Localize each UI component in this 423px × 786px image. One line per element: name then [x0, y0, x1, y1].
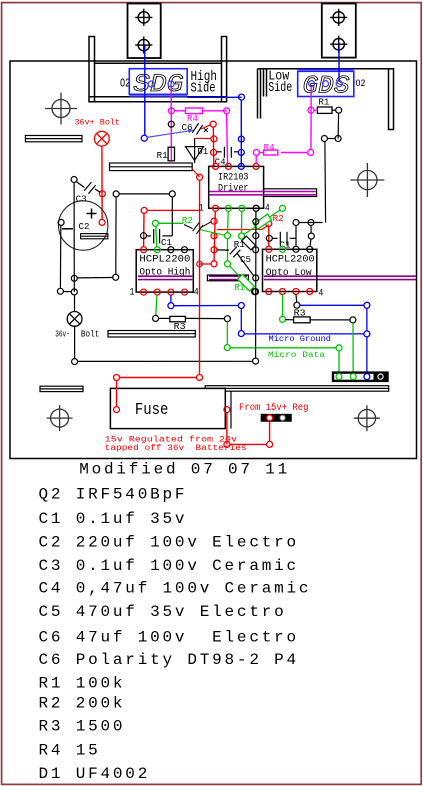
node magenta R4 left — [168, 108, 174, 114]
resistor R1 low — [317, 107, 332, 113]
wire: green opto high pin2 to R3 — [156, 295, 157, 315]
wire: magenta R4 horizontal — [174, 110, 185, 112]
wire: red from bar B to long rail — [192, 169, 199, 177]
Q2 high-side footprint SDG box — [129, 69, 187, 97]
svg-text:C6: C6 — [182, 123, 193, 133]
wire: black pads join — [327, 138, 335, 140]
wire: R3 low leads — [286, 319, 294, 321]
resistor R4 high — [186, 108, 203, 114]
wire: green to connector pin2 — [352, 323, 354, 373]
svg-text:D1 UF4002: D1 UF4002 — [39, 765, 151, 783]
svg-text:Q2 IRF540BpF: Q2 IRF540BpF — [39, 485, 188, 503]
svg-text:4: 4 — [194, 288, 199, 299]
resistor R1 high (vertical) — [168, 147, 174, 161]
svg-text:R1 100k: R1 100k — [39, 675, 126, 693]
capacitor C1 high pad — [141, 233, 147, 239]
board outline — [10, 61, 417, 459]
svg-text:HCPL2200: HCPL2200 — [266, 254, 315, 265]
trace bar C — [108, 331, 195, 338]
svg-text:1: 1 — [199, 204, 204, 215]
wire: black x311 down — [310, 226, 312, 234]
wire: black down x324 — [324, 142, 327, 223]
node — [71, 289, 77, 295]
wire: join minus wires — [63, 291, 71, 293]
node — [253, 358, 259, 364]
resistor R2 green diagonal — [244, 210, 280, 234]
wire: blue from right tab hole to GDS — [338, 44, 340, 81]
node blue — [239, 94, 245, 100]
capacitor C1 high — [147, 229, 173, 244]
node magenta — [253, 150, 259, 156]
node magenta R4 low node — [308, 150, 314, 156]
capacitor C2 body — [58, 201, 107, 250]
svg-text:C5 470uf 35v Electro: C5 470uf 35v Electro — [39, 603, 287, 621]
wire: red 36v+ down to C2 — [101, 146, 103, 219]
svg-text:R2 200k: R2 200k — [39, 694, 126, 712]
svg-text:R3: R3 — [294, 309, 306, 319]
resistor R3 low — [294, 317, 311, 323]
wire: red horizontal to opto high — [141, 207, 147, 213]
low-side heatsink outline — [258, 69, 394, 130]
svg-text:From 15v+ Reg: From 15v+ Reg — [239, 403, 309, 414]
wire: red C6 to pad — [201, 125, 210, 129]
parts list — [39, 461, 312, 783]
pad red C6 — [210, 121, 216, 127]
fuse F1 box — [110, 388, 225, 428]
node black R1g end — [252, 289, 258, 295]
trace bar A — [25, 136, 82, 142]
pad red fuse left — [114, 407, 120, 413]
wire: green to connector — [338, 351, 340, 373]
svg-text:HCPL2200: HCPL2200 — [139, 253, 190, 264]
svg-text:Micro Data: Micro Data — [268, 350, 325, 360]
svg-text:C2: C2 — [79, 222, 90, 232]
node — [72, 359, 78, 365]
wire: blue micro ground horizontal — [244, 333, 364, 335]
resistor R1 black diagonal — [244, 238, 254, 248]
wire: red long rail x199 — [199, 180, 201, 374]
capacitor C6 second — [184, 222, 211, 234]
wire: black x116 vertical — [115, 197, 117, 274]
wire: magenta lead — [259, 152, 263, 154]
node green pin4 right — [280, 205, 286, 211]
C6 polarity x mark — [204, 128, 208, 132]
svg-text:Side: Side — [268, 80, 292, 96]
tab hole H1 — [135, 9, 152, 26]
tab hole H4 — [330, 36, 347, 53]
svg-text:C4 0,47uf 100v Ceramic: C4 0,47uf 100v Ceramic — [39, 580, 312, 598]
mounting target right — [350, 163, 384, 197]
pad black — [321, 136, 327, 142]
svg-text:Side: Side — [191, 80, 216, 96]
pad red fuse right — [224, 407, 230, 413]
IR2103 pin pads top — [213, 163, 219, 169]
node black R1 low right — [336, 107, 342, 113]
svg-text:C1 0.1uf 35v: C1 0.1uf 35v — [39, 510, 188, 528]
svg-text:R1: R1 — [234, 283, 245, 293]
pad D — [323, 81, 329, 87]
svg-text:D1: D1 — [197, 147, 208, 157]
IR2103 pin pads bottom — [213, 205, 219, 211]
purple traces in IR2103 — [210, 192, 317, 195]
wire: blue opto high pin3 — [170, 295, 172, 303]
svg-text:R3: R3 — [174, 322, 186, 332]
trace bar F — [207, 275, 248, 281]
opto low pads bottom — [266, 289, 272, 295]
wire: black opto low pin3 down — [295, 295, 298, 303]
mounting tab left — [128, 4, 161, 59]
svg-text:R4 15: R4 15 — [39, 742, 101, 760]
svg-text:tapped off 36v Batteries: tapped off 36v Batteries — [105, 443, 247, 453]
pad red C3 right — [99, 191, 105, 197]
svg-text:C2 220uf 100v Electro: C2 220uf 100v Electro — [39, 534, 299, 552]
wire: magenta from SDG G pad down — [170, 87, 172, 147]
wire: black C1 top link — [171, 197, 173, 236]
wire: red rail x213 — [212, 127, 215, 166]
svg-text:Opto Low: Opto Low — [266, 267, 312, 278]
pad C2 minus — [58, 219, 64, 225]
mounting target bottom-left — [47, 405, 73, 431]
diode D1 — [186, 147, 204, 163]
svg-text:Modified 07 07 11: Modified 07 07 11 — [79, 461, 290, 479]
wire: black pads join — [299, 222, 323, 224]
opto high pads top — [141, 247, 147, 253]
C2 minus mark — [62, 228, 73, 230]
connector J1 micro — [333, 373, 388, 381]
pad blue C4 — [238, 149, 244, 155]
svg-text:SDG: SDG — [133, 70, 183, 99]
wire: red joins long rail — [200, 263, 212, 265]
pad red C4 left — [211, 149, 217, 155]
IC U1 IR2103 box — [209, 166, 264, 208]
wire: R3 leads — [159, 317, 170, 319]
trace bar G — [264, 189, 317, 197]
trace bar D — [205, 386, 389, 392]
pad D-G — [168, 81, 174, 87]
svg-text:O2: O2 — [356, 78, 366, 90]
svg-text:Micro Ground: Micro Ground — [269, 334, 332, 344]
opto high pads bottom — [141, 289, 147, 295]
bolt 36v+ symbol — [94, 131, 109, 146]
tab hole H3 — [330, 9, 347, 26]
wire: R1 low leads — [314, 109, 317, 111]
wire: black to C2/C3 rail — [77, 277, 113, 279]
wire: C2 minus down — [59, 225, 61, 288]
Q2 low-side footprint GDS box — [298, 69, 354, 96]
pad red C2 plus — [99, 219, 105, 225]
node — [71, 275, 77, 281]
wire: green opto low pin2 down — [282, 295, 284, 317]
wire: red rail IR2103 pin1 bottom — [214, 211, 215, 260]
IC U3 HCPL2200 opto low box — [263, 249, 317, 291]
svg-text:4: 4 — [265, 204, 270, 215]
pad S — [336, 81, 342, 87]
pad C3 left — [71, 177, 77, 183]
node blue C6 arrow start — [141, 135, 147, 141]
pad S-D — [148, 81, 154, 87]
capacitor C1 low — [266, 235, 272, 241]
wire: red rising link to opto low rail — [217, 225, 269, 230]
wire: green down to opto high pin2 — [156, 226, 157, 246]
svg-text:Fuse: Fuse — [135, 400, 169, 419]
svg-text:1: 1 — [130, 288, 135, 299]
wire: R1 to bar B — [170, 161, 172, 163]
svg-text:15v Regulated from 24v: 15v Regulated from 24v — [105, 435, 237, 445]
pad black — [335, 136, 341, 142]
svg-text:R2: R2 — [273, 214, 284, 224]
svg-text:36v+ Bolt: 36v+ Bolt — [75, 118, 121, 128]
trace bar E — [40, 386, 83, 391]
pad G — [309, 81, 315, 87]
svg-text:IR2103: IR2103 — [218, 171, 249, 182]
opto low pads top — [266, 246, 272, 252]
wire: down to 36v- bolt — [74, 295, 76, 312]
wire: red fuse to header — [226, 413, 228, 445]
svg-text:R3 1500: R3 1500 — [39, 718, 126, 736]
wire: black down from R1 low — [337, 113, 340, 138]
wire: C3 left vertical — [73, 183, 75, 292]
mounting tab right — [322, 4, 356, 58]
pad black on magenta rail — [168, 121, 174, 127]
svg-text:C3 0.1uf 100v Ceramic: C3 0.1uf 100v Ceramic — [39, 557, 299, 575]
wire: green diagonal to pad — [201, 230, 225, 235]
wire: red opto high pin1 — [143, 213, 145, 246]
wire: magenta down to IR2103 pin2 — [227, 114, 228, 167]
wire: green micro data drop — [226, 322, 228, 345]
svg-text:R1: R1 — [157, 151, 168, 161]
high-side heatsink outline — [89, 37, 227, 102]
wire: green R2 high — [152, 220, 158, 226]
wire: magenta R4 low horizontal — [281, 152, 308, 154]
resistor R3 high — [170, 316, 186, 321]
pad red — [211, 136, 217, 142]
wire: green micro data horizontal — [230, 347, 336, 349]
svg-text:R4: R4 — [264, 143, 275, 153]
pad red rail top — [197, 174, 203, 180]
node red opto low rail top — [266, 221, 272, 227]
capacitor C4 — [217, 147, 239, 158]
C2 stripe bar — [81, 234, 108, 239]
resistor R1 green diagonal — [230, 266, 252, 289]
black pads row y222 — [293, 220, 299, 226]
resistor R4 low — [264, 150, 278, 155]
svg-text:C3: C3 — [76, 195, 87, 205]
wire: blue diagonal to C6 — [147, 130, 194, 137]
IC U2 HCPL2200 opto high box — [136, 250, 193, 292]
purple long traces — [138, 276, 416, 279]
svg-text:C6 Polarity DT98-2 P4: C6 Polarity DT98-2 P4 — [39, 651, 299, 669]
svg-text:4: 4 — [318, 289, 323, 300]
wire: red down to opto low pin1 — [268, 227, 270, 247]
wire: ground rail horizontal — [78, 360, 253, 362]
bolt 36v- symbol — [67, 312, 82, 327]
wire: magenta down to IR2103 pin4 — [255, 156, 257, 164]
pad blue — [238, 136, 244, 142]
wire: red rail to fuse — [197, 375, 203, 381]
svg-text:R2: R2 — [182, 216, 193, 226]
svg-text:C6 47uf 100v Electro: C6 47uf 100v Electro — [39, 628, 299, 646]
node — [57, 288, 63, 294]
svg-text:36v-: 36v- — [55, 330, 70, 340]
wire: blue micro ground upper — [300, 304, 364, 306]
mounting target bottom-right — [354, 405, 380, 431]
node magenta R1 low left — [308, 107, 314, 113]
wire: black x296 down — [295, 226, 297, 247]
wire: 36v- bolt down — [74, 326, 76, 358]
C2 plus mark — [87, 209, 97, 219]
trace bar B — [110, 163, 193, 171]
wire: green pin2/3 verticals IR2103 — [227, 211, 230, 232]
wire: magenta R4 low from GDS G pad — [310, 87, 312, 150]
wire: red to D1 — [195, 137, 211, 139]
header P4 15v — [261, 415, 291, 421]
tab hole H2 — [135, 37, 152, 54]
wire: green pin3 vertical — [241, 211, 243, 233]
wire: black rail x255 from IR2103 pin4 — [255, 211, 257, 358]
svg-text:R1: R1 — [318, 98, 329, 108]
wire: black from bar D to fuse — [230, 391, 232, 428]
wire: blue from left tab hole to SDG — [144, 45, 146, 135]
mounting target top-left — [45, 93, 77, 125]
node magenta R4 right — [224, 108, 230, 114]
svg-text:Bolt: Bolt — [81, 330, 100, 340]
capacitor C3 — [77, 182, 101, 194]
wire: blue horizontal under SDG — [187, 96, 241, 98]
wire: blue rail to IR2103 pin — [240, 100, 242, 167]
